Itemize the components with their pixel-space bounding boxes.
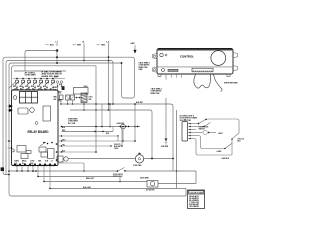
control mount circle A — [160, 53, 163, 56]
svg-text:SPKR WIR BRN: SPKR WIR BRN — [224, 83, 238, 85]
stubs to y103 — [60, 100, 62, 105]
svg-text:BRN: BRN — [54, 96, 57, 98]
svg-text:BURN TUB: BURN TUB — [151, 93, 161, 95]
latch motor box — [147, 181, 158, 188]
board circle top left — [13, 96, 17, 100]
harness terminals right — [56, 81, 58, 83]
control lower drops — [165, 74, 167, 80]
board IC rect — [43, 106, 51, 121]
wire circle down — [122, 129, 124, 141]
wire x120 down — [119, 177, 121, 182]
wire big loop right x173 — [170, 104, 173, 171]
junction dots mid — [76, 97, 78, 99]
wire x196 down — [195, 171, 197, 184]
svg-text:OVN LTS: OVN LTS — [238, 138, 244, 140]
board small circle lower — [35, 122, 38, 125]
svg-text:BLK WHT: BLK WHT — [136, 102, 143, 104]
wire pin5 to lamp — [189, 135, 199, 137]
svg-text:WIR: WIR — [54, 89, 57, 91]
wire y171 — [9, 170, 117, 172]
control foot left — [158, 74, 161, 76]
wire y158 — [68, 158, 135, 160]
riser x110 — [109, 104, 111, 127]
svg-text:LT: LT — [51, 161, 53, 163]
connector J2 — [182, 122, 188, 142]
board bottom relay K3 — [21, 154, 28, 159]
board bottom edge ticks — [13, 164, 15, 167]
control big slot — [192, 68, 213, 72]
cavity right — [231, 139, 233, 155]
svg-text:2 BLK: 2 BLK — [84, 86, 88, 88]
wire y181.5 — [44, 181, 147, 183]
heater element hatched — [81, 93, 87, 103]
control small slot hatched — [168, 69, 178, 71]
svg-text:BRN LIGHT: BRN LIGHT — [86, 178, 94, 180]
control top hatch — [157, 49, 233, 51]
control inner shelf — [157, 66, 233, 68]
wire x122 down to y146 — [121, 127, 123, 146]
board bottom relay K2 — [26, 151, 31, 154]
wire inner loop x152 — [150, 110, 152, 159]
svg-text:WIR: WIR — [89, 99, 92, 101]
board left circle — [11, 149, 14, 152]
control right tab 1 — [233, 53, 238, 58]
harness feed wire — [13, 78, 65, 80]
wire line A y104 — [60, 103, 170, 105]
wire y183.5 — [158, 183, 196, 185]
svg-text:OVN LTS: OVN LTS — [114, 144, 120, 146]
board bottom terminal dots — [14, 163, 16, 165]
relay comp A — [60, 95, 64, 100]
wire pin2 — [189, 126, 204, 128]
wire y126.5 — [62, 126, 141, 128]
latch motor circle — [121, 124, 126, 129]
relay comp C — [71, 95, 75, 100]
control right tab 2 — [233, 66, 238, 71]
svg-text:W-WHITE: W-WHITE — [189, 198, 199, 200]
board right pin labels top — [58, 92, 61, 94]
wire y141 — [58, 140, 135, 142]
riser x135 — [134, 104, 136, 141]
wire pin3 bulb — [189, 129, 196, 131]
board bottom relay K4 — [39, 147, 46, 152]
bottom comp box — [57, 156, 63, 162]
switch stubs to board — [16, 86, 18, 90]
wire L1 horizontal — [25, 51, 57, 72]
wire y188 — [50, 188, 177, 190]
board left lower pins — [8, 140, 12, 142]
wire L1 drop — [56, 51, 58, 64]
switch diag left — [9, 83, 16, 89]
svg-text:WIR: WIR — [54, 99, 57, 101]
svg-text:DL MOTOR: DL MOTOR — [146, 189, 155, 191]
board bottom drops — [16, 166, 18, 172]
svg-text:WHT: WHT — [13, 86, 16, 88]
svg-text:COLOR CODE: COLOR CODE — [189, 193, 204, 195]
board bottom relay K5 — [41, 152, 48, 157]
wire x96 drop — [95, 66, 97, 152]
wire harness top y71 — [14, 70, 66, 72]
svg-text:CONTROL: CONTROL — [180, 55, 194, 59]
control left tab 2 — [153, 67, 158, 72]
svg-text:GR-GREEN: GR-GREEN — [189, 206, 199, 208]
svg-text:GND: GND — [131, 43, 136, 45]
wire pin6 cavity — [189, 138, 194, 140]
svg-text:LIGHT: LIGHT — [218, 133, 223, 135]
wire y119 to right — [207, 118, 238, 120]
bottom comp circle — [64, 157, 68, 161]
svg-text:1 BLK: 1 BLK — [89, 96, 93, 98]
svg-text:WHT: WHT — [37, 86, 40, 88]
riser x176.5 — [176, 110, 178, 189]
wire line B y110 — [70, 109, 150, 111]
svg-text:BLK LIGHT: BLK LIGHT — [83, 187, 91, 189]
wire bus3 y63 — [9, 63, 122, 196]
latch switch — [117, 170, 119, 172]
bottom frame y196 — [12, 195, 187, 197]
svg-text:BLK WHT: BLK WHT — [114, 146, 121, 148]
control mount circle B — [165, 54, 167, 56]
svg-text:BROIL: BROIL — [22, 161, 27, 163]
board left pins — [9, 105, 13, 108]
door switch row — [16, 79, 18, 81]
svg-text:GND WIR: GND WIR — [161, 146, 169, 148]
svg-text:WHT: WHT — [25, 86, 28, 88]
black comp — [62, 86, 65, 90]
control unit U1 outline — [157, 49, 233, 75]
relay contact grid — [20, 92, 38, 104]
junction dots on board top — [13, 89, 14, 90]
latch assembly box — [74, 88, 89, 95]
relay board outline — [12, 90, 59, 166]
wire y152 — [58, 151, 96, 153]
control left tab 1 — [153, 54, 158, 59]
board small rrect — [18, 108, 28, 114]
board circle mid — [30, 108, 35, 113]
fan motor circle — [135, 155, 143, 163]
lamp switch — [224, 148, 225, 149]
control big circle — [211, 51, 226, 66]
wire y132 — [62, 131, 114, 133]
svg-text:CONN HARN: CONN HARN — [25, 74, 37, 77]
riser x166 lower — [165, 98, 167, 132]
riser x102 — [101, 104, 103, 127]
wire y146 — [58, 145, 111, 147]
gnd mid symbol — [165, 132, 167, 140]
svg-text:Y-YELLOW: Y-YELLOW — [189, 202, 199, 204]
wire bus2 drop x113 — [111, 61, 114, 105]
board bottom relay K1 — [17, 146, 26, 153]
speaker cable bundle — [194, 75, 211, 89]
svg-text:BU-BLUE: BU-BLUE — [189, 204, 199, 206]
board misc dots — [43, 142, 45, 144]
wire pin4 light — [189, 132, 203, 134]
right short vertical x186 — [185, 189, 187, 197]
board bottom pins dots — [16, 165, 17, 166]
wire bus2 y60.5 — [6, 61, 111, 175]
wire L2 long drop — [108, 46, 110, 110]
door switch top — [189, 123, 198, 125]
wire bus1 y57.2 — [3, 57, 132, 174]
legend box — [188, 190, 205, 209]
relay comp B — [66, 95, 70, 100]
wire y176.5 — [38, 176, 120, 178]
wire y136 — [58, 135, 118, 137]
control lower circle — [162, 69, 165, 72]
svg-text:BLU TUB: BLU TUB — [68, 123, 76, 125]
wire bus1 right corner down — [122, 57, 135, 98]
switch right diag — [232, 133, 239, 139]
junction L1 dot — [56, 49, 59, 52]
svg-text:2 BLK: 2 BLK — [54, 87, 58, 89]
wire y158 right — [144, 158, 173, 160]
svg-text:RELAY BOARD: RELAY BOARD — [28, 130, 50, 134]
wire bus4 y65.8 — [12, 66, 97, 90]
wire N drop — [83, 46, 85, 61]
svg-text:WHT: WHT — [54, 77, 57, 79]
svg-text:CONV: CONV — [30, 161, 34, 163]
board bottom relay K6 — [48, 149, 55, 159]
left edge blob — [1, 167, 4, 171]
control foot right — [227, 74, 230, 76]
wire y163 — [58, 162, 84, 164]
svg-text:R-RED: R-RED — [189, 200, 200, 202]
